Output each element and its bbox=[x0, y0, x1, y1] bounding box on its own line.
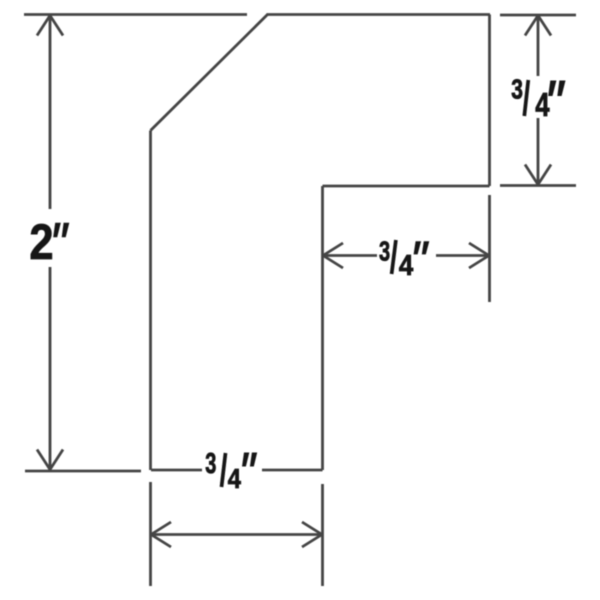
svg-text:4: 4 bbox=[228, 464, 242, 494]
svg-text:3: 3 bbox=[205, 449, 216, 480]
svg-text:4: 4 bbox=[535, 87, 550, 124]
svg-text:2: 2 bbox=[29, 214, 53, 269]
svg-text:3: 3 bbox=[379, 236, 390, 267]
svg-text:4: 4 bbox=[399, 249, 414, 282]
svg-text:3: 3 bbox=[511, 75, 523, 105]
